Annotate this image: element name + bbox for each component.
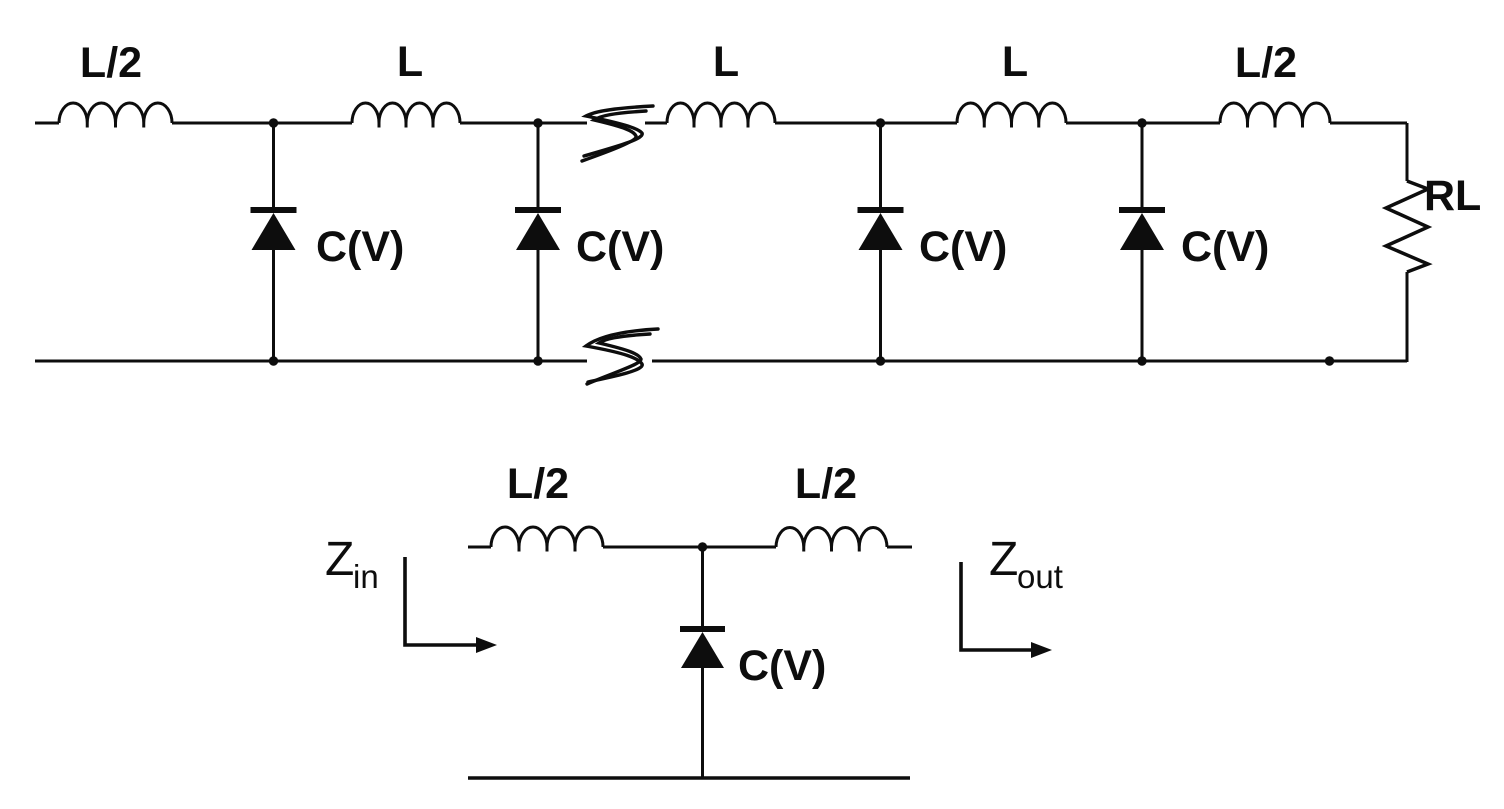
node dot top 4 xyxy=(1137,118,1146,127)
wire top line right of break xyxy=(645,122,1407,125)
node dot top 2 xyxy=(533,118,542,127)
svg-text:L/2: L/2 xyxy=(507,460,569,508)
unit cell inductor L/2 left xyxy=(491,527,603,552)
svg-text:C(V): C(V) xyxy=(576,223,664,271)
inductor L fourth xyxy=(957,103,1066,128)
node dot bottom 4 xyxy=(1137,356,1146,365)
svg-text:out: out xyxy=(1017,558,1063,595)
varactor diode D2 stem and bar xyxy=(537,123,540,207)
varactor diode D1 stem and bar xyxy=(272,123,275,207)
node dot bottom 3 xyxy=(876,356,885,365)
Zin measurement bracket xyxy=(405,557,480,645)
varactor diode D3 triangle xyxy=(859,213,903,250)
inductor L third xyxy=(667,103,775,128)
svg-text:C(V): C(V) xyxy=(1181,223,1269,271)
Zout arrowhead xyxy=(1031,642,1052,658)
varactor diode D2 triangle xyxy=(516,213,560,250)
svg-text:Z: Z xyxy=(989,533,1018,586)
svg-text:Z: Z xyxy=(325,533,354,586)
svg-text:C(V): C(V) xyxy=(738,642,826,690)
inductor L/2 first xyxy=(59,103,172,128)
svg-text:C(V): C(V) xyxy=(316,223,404,271)
Zin arrowhead xyxy=(476,637,497,653)
svg-text:RL: RL xyxy=(1424,172,1481,220)
unit cell ground line xyxy=(468,776,910,780)
unit cell node dot xyxy=(698,542,707,551)
Zout measurement bracket xyxy=(961,562,1036,650)
node dot top 1 xyxy=(269,118,278,127)
wire right vertical below resistor xyxy=(1406,272,1409,362)
varactor diode D4 triangle xyxy=(1120,213,1164,250)
node dot bottom right xyxy=(1325,356,1334,365)
wire bottom line right segment xyxy=(652,360,1407,363)
svg-text:C(V): C(V) xyxy=(919,223,1007,271)
svg-text:L/2: L/2 xyxy=(1235,39,1297,87)
svg-text:in: in xyxy=(353,558,379,595)
resistor RL zigzag xyxy=(1386,181,1428,272)
node dot bottom 1 xyxy=(269,356,278,365)
svg-text:L: L xyxy=(1002,38,1028,86)
wire right vertical to resistor xyxy=(1406,123,1409,181)
node dot top 3 xyxy=(876,118,885,127)
varactor diode D1 triangle xyxy=(252,213,296,250)
svg-text:L: L xyxy=(397,38,423,86)
unit cell diode D5 triangle xyxy=(681,632,724,668)
unit cell inductor L/2 right xyxy=(776,528,887,552)
inductor L/2 fifth xyxy=(1220,103,1330,128)
varactor diode D3 stem and bar xyxy=(879,123,882,207)
unit cell diode D5 stem and bar xyxy=(701,547,704,626)
inductor L second xyxy=(352,103,460,128)
node dot bottom 2 xyxy=(533,356,542,365)
wire bottom line left segment xyxy=(35,360,587,363)
svg-text:L/2: L/2 xyxy=(795,460,857,508)
break squiggle bottom xyxy=(586,329,658,384)
svg-text:L/2: L/2 xyxy=(80,39,142,87)
unit cell top wire xyxy=(468,546,912,549)
varactor diode D4 stem and bar xyxy=(1141,123,1144,207)
wire top line left segment xyxy=(35,122,587,125)
svg-text:L: L xyxy=(713,38,739,86)
break squiggle top xyxy=(582,106,653,161)
